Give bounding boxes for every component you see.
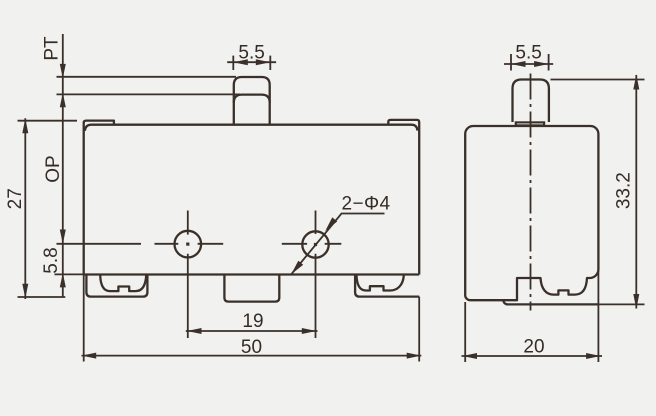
front view body bottom edge	[84, 273, 420, 275]
5.5 front right arrow	[256, 59, 270, 65]
right mounting foot plate	[355, 275, 419, 297]
dimension 5.5 (side) line	[504, 63, 553, 65]
dimension 5.5 (front) line	[227, 61, 276, 63]
50 right extension (body right edge)	[418, 297, 420, 362]
dimension 19 line	[186, 330, 318, 332]
extension line plunger top level	[57, 76, 237, 78]
svg-text:27: 27	[5, 188, 26, 209]
hole 2 vertical centerline / 19 extension	[315, 211, 317, 339]
20 left extension	[464, 302, 466, 362]
50 left extension (body left edge)	[83, 275, 85, 362]
svg-text:33.2: 33.2	[614, 172, 635, 209]
svg-text:20: 20	[523, 337, 544, 358]
svg-text:OP: OP	[43, 155, 64, 182]
20 left arrow	[463, 353, 478, 359]
svg-text:5.8: 5.8	[41, 247, 62, 273]
extension line bottom (foot bottom)	[18, 296, 66, 298]
extension line operating position level	[57, 93, 241, 95]
svg-text:50: 50	[241, 337, 262, 358]
horizontal centerline through holes	[57, 243, 342, 245]
svg-text:5.5: 5.5	[515, 43, 541, 64]
right foot recess curve with key notch	[357, 275, 404, 291]
front view body top-right lip and right edge	[388, 120, 419, 275]
PT down arrow	[60, 64, 66, 78]
33.2 bottom extension line (base plate extended)	[598, 303, 644, 305]
middle terminal tab	[224, 275, 279, 302]
hole 1 center dot	[186, 243, 189, 246]
dimension 27 top arrow	[22, 119, 28, 134]
5.5 side left tick	[510, 54, 512, 71]
svg-text:2−Φ4: 2−Φ4	[342, 194, 391, 215]
33.2 top extension line	[551, 79, 645, 81]
side view vertical centerline	[530, 74, 532, 311]
5.5 side right tick	[548, 54, 550, 71]
svg-text:5.5: 5.5	[238, 43, 264, 64]
plunger (front view)	[234, 77, 270, 125]
dimension 33.2 line	[635, 75, 637, 309]
side view base plate	[503, 300, 598, 304]
front view body inner top line	[85, 125, 418, 131]
hole 2 center dot	[314, 243, 317, 246]
5.5 side right arrow	[534, 61, 549, 67]
19 right arrow	[302, 328, 317, 334]
side view plunger	[513, 80, 549, 123]
5.8 up arrow	[60, 273, 66, 287]
side view plunger collar	[515, 121, 546, 126]
5.5 front right tick	[269, 56, 271, 70]
dimension 20 line	[462, 355, 603, 357]
front view body left edge and top-left lip	[84, 121, 114, 275]
left foot recess curve with key notch	[100, 275, 146, 291]
50 right arrow	[407, 353, 422, 359]
hole 2 circle	[302, 231, 328, 257]
extension line top (body top)	[18, 120, 78, 122]
side view body outline	[465, 126, 598, 300]
leader arrow at body bottom	[291, 261, 303, 275]
left mounting foot plate	[86, 275, 147, 297]
hole 1 vertical centerline / 19 extension	[187, 211, 189, 339]
19 left arrow	[187, 328, 202, 334]
leader arrow at hole 2	[325, 217, 337, 231]
plunger operating position line	[234, 95, 270, 103]
5.5 front left tick	[232, 56, 234, 70]
extension line body bottom left	[55, 273, 85, 275]
PT/OP/5.8 dimension line	[62, 34, 64, 297]
dimension 27 bottom arrow	[22, 284, 28, 298]
OP down arrow	[60, 230, 66, 245]
hole 1 circle	[175, 231, 202, 258]
50 left arrow	[82, 353, 97, 359]
dimension 27 line	[24, 118, 26, 299]
leader 2-Phi4 diagonal	[291, 214, 384, 275]
33.2 bottom arrow	[633, 294, 639, 309]
PT/OP up arrow	[60, 93, 66, 107]
dimension 50 line	[82, 355, 422, 357]
5.5 front left arrow	[233, 59, 248, 65]
20 right arrow	[586, 353, 601, 359]
svg-text:PT: PT	[42, 36, 63, 61]
5.5 side left arrow	[511, 61, 526, 67]
20 right extension	[597, 270, 599, 362]
svg-text:19: 19	[242, 311, 263, 332]
33.2 top arrow	[633, 75, 639, 90]
